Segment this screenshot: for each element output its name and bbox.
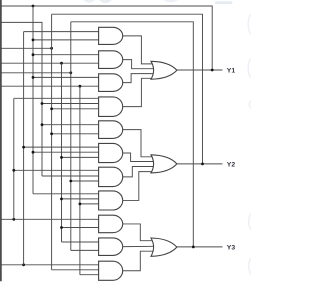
node Y1-col3 junction — [32, 5, 35, 8]
and-gate G1 — [99, 27, 123, 44]
decor — [83, 0, 251, 275]
wire branch to G10 pin1 — [62, 241, 99, 243]
or-gate U1 — [151, 61, 177, 79]
node Y1 junction — [211, 69, 214, 72]
wire G4 to U1 — [123, 78, 153, 106]
wire branch to G2 pin1 — [33, 54, 99, 56]
and-gate G5 — [99, 121, 123, 139]
wire output Y1 — [177, 69, 223, 71]
wire G3 to U1 — [123, 74, 154, 83]
and-gate G8 — [99, 191, 123, 210]
wire branch to G10 pin2 — [71, 249, 99, 251]
wire output Y2 — [177, 163, 223, 165]
wire column 8 — [79, 86, 81, 275]
wire branch to G4 pin1 — [14, 97, 99, 99]
wire branch to G1 pin2 — [33, 39, 99, 41]
wire input line e (to G3 pin2) — [1, 85, 98, 87]
wire branch to G5 pin1 — [42, 124, 99, 126]
wire G6 to U2 — [123, 153, 154, 162]
node Y3 junction — [192, 246, 195, 249]
node input-f junction — [12, 218, 15, 221]
wire input line c (to G2 pin2) — [1, 62, 98, 64]
and-gate G10 — [99, 238, 123, 256]
wire branch to G4 pin3 — [52, 108, 99, 110]
node input-c junction — [60, 62, 63, 65]
wire Y3 feedback top — [71, 22, 194, 247]
and-gate G7 — [99, 167, 123, 186]
wire branch to G7 pin2 — [42, 175, 99, 177]
wire column 6 — [61, 63, 63, 242]
wire column 5 — [51, 14, 53, 270]
or-gate U2 — [151, 155, 177, 173]
svg-text:Y3: Y3 — [227, 244, 236, 251]
node Y2 junction — [201, 163, 204, 166]
wire G9 to U3 — [123, 224, 154, 241]
node input-g junction — [22, 263, 25, 266]
wire branch to G7 pin3 — [71, 180, 99, 182]
and-gate G11 — [99, 261, 123, 280]
and-gate G6 — [99, 143, 123, 162]
or-gate U3 — [151, 238, 177, 256]
wire column 1 — [13, 98, 15, 219]
wire branch to G11 pin2 — [52, 269, 99, 271]
wire branch to G3 pin1 — [33, 76, 99, 78]
svg-text:Y2: Y2 — [227, 161, 236, 168]
and-gate G2 — [99, 51, 123, 69]
wire G8 to U2 — [123, 172, 153, 201]
wire branch to G6 pin3 — [62, 156, 99, 158]
and-gate G3 — [99, 74, 123, 92]
wire input line g (to G11 pin1) — [1, 264, 98, 266]
wire Y2 feedback top — [52, 14, 203, 164]
wire column 3 — [32, 6, 34, 194]
wire branch to G7 pin1 — [14, 169, 99, 171]
wire branch to G6 pin1 — [24, 146, 99, 148]
wire branch to G9 pin2 — [62, 227, 99, 229]
wire branch to G11 pin3 — [80, 274, 99, 276]
wire branch to G8 pin1 — [33, 193, 99, 195]
wire branch to G8 pin3 — [80, 203, 99, 205]
wire G10 to U3 — [123, 245, 154, 247]
wire G11 to U3 — [123, 251, 154, 271]
wire column 7 — [70, 22, 72, 251]
wire branch to G8 pin2 — [62, 198, 99, 200]
node input-b junction — [50, 47, 53, 50]
wire Y1 feedback top — [1, 6, 212, 70]
wire input line a — [1, 22, 42, 176]
left frame border — [0, 0, 2, 281]
node input-e junction — [79, 85, 82, 88]
wire branch to G1 pin1 — [24, 31, 99, 33]
wire branch to G6 pin2 — [33, 151, 99, 153]
wire input line b — [1, 47, 51, 49]
wire input line d — [1, 72, 71, 74]
wire G2 to U1 — [123, 60, 154, 69]
wire G1 to U1 — [123, 36, 154, 64]
svg-text:Y1: Y1 — [227, 67, 236, 74]
wire branch to G5 pin2 — [52, 133, 99, 135]
and-gate G4 — [99, 97, 123, 117]
wire output Y3 — [177, 246, 223, 248]
wire input line f (to G9 pin1) — [1, 218, 98, 220]
and-gate G9 — [99, 215, 123, 233]
wire G7 to U2 — [123, 167, 154, 177]
node input-d junction — [69, 71, 72, 74]
wire column 2 — [23, 32, 25, 265]
wire branch to G4 pin2 — [42, 103, 99, 105]
wire G5 to U2 — [123, 130, 154, 157]
